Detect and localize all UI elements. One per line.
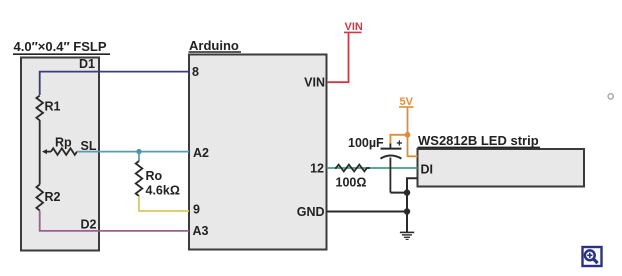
- junction node 5V: [405, 132, 411, 138]
- decorative ring artifact: [608, 94, 613, 99]
- resistor R1: [36, 96, 60, 121]
- resistor 100 ohm: [335, 165, 370, 190]
- WS2812B LED strip body: [418, 149, 585, 187]
- FSLP title label: [13, 39, 110, 54]
- WS2812B LED strip title label: [418, 133, 541, 148]
- node label D1: [79, 57, 95, 71]
- pin 8 label: [192, 65, 199, 79]
- svg-text:D1: D1: [79, 57, 95, 71]
- ground: [400, 232, 414, 239]
- wire net D1 (FSLP D1 to Arduino pin 8): [40, 72, 189, 95]
- pin 9 label: [193, 203, 200, 217]
- Arduino title label: [189, 38, 242, 53]
- capacitor C1 100uF: [348, 136, 402, 159]
- svg-text:WS2812B LED strip: WS2812B LED strip: [418, 133, 539, 148]
- wire LED strip GND to ground rail: [407, 178, 418, 232]
- junction node cap/ground: [404, 189, 410, 195]
- junction node SL/Ro: [136, 149, 141, 154]
- svg-text:4.6kΩ: 4.6kΩ: [146, 184, 180, 198]
- FSLP sensor body: [21, 58, 99, 251]
- wire Ro to Arduino pin 9: [139, 196, 189, 211]
- svg-text:R2: R2: [45, 190, 61, 204]
- Arduino U1 body: [189, 55, 327, 250]
- svg-text:VIN: VIN: [345, 21, 363, 33]
- svg-text:12: 12: [310, 162, 324, 176]
- node label D2: [81, 218, 97, 232]
- potentiometer wiper resistor Rp: [42, 136, 77, 155]
- junction node GND rail: [404, 208, 410, 214]
- resistor R2: [36, 185, 60, 211]
- pin VIN label: [304, 76, 325, 90]
- power symbol VIN: [344, 21, 363, 33]
- svg-text:SL: SL: [81, 139, 97, 153]
- svg-text:DI: DI: [421, 163, 434, 177]
- svg-text:100µF: 100µF: [348, 136, 384, 150]
- power symbol 5V: [399, 96, 414, 108]
- svg-text:4.0″×0.4″ FSLP: 4.0″×0.4″ FSLP: [14, 39, 107, 54]
- wire net SL (wiper to Arduino pin A2): [77, 151, 189, 153]
- pin 12 label: [310, 162, 324, 176]
- node label SL: [81, 139, 97, 153]
- resistor Ro 4.6k: [136, 161, 180, 198]
- wire SL junction down to Ro: [138, 152, 140, 161]
- pin DI label: [421, 163, 434, 177]
- wire net D2 (FSLP D2 to Arduino pin A3): [40, 211, 189, 231]
- svg-text:R1: R1: [45, 100, 61, 114]
- pin A2 label: [193, 146, 209, 160]
- svg-text:A3: A3: [193, 224, 209, 238]
- svg-text:9: 9: [193, 203, 200, 217]
- pin GND label: [297, 205, 325, 219]
- svg-text:100Ω: 100Ω: [336, 176, 367, 190]
- wire net VIN: [327, 32, 349, 82]
- svg-text:VIN: VIN: [304, 76, 325, 90]
- wire net 5V: [390, 107, 417, 156]
- zoom button icon: [583, 247, 602, 266]
- svg-text:Arduino: Arduino: [189, 38, 239, 53]
- pin A3 label: [193, 224, 209, 238]
- wire net GND (Arduino GND to ground rail): [327, 211, 407, 213]
- svg-text:A2: A2: [193, 146, 209, 160]
- svg-text:D2: D2: [81, 218, 97, 232]
- wire net DI (pin 12 to LED strip DI): [327, 167, 418, 169]
- svg-text:Rp: Rp: [55, 136, 72, 150]
- wire capacitor negative lead: [390, 158, 407, 193]
- svg-text:Ro: Ro: [146, 169, 163, 183]
- svg-text:GND: GND: [297, 205, 325, 219]
- wire R1 to R2 junction: [39, 120, 41, 185]
- svg-text:8: 8: [192, 65, 199, 79]
